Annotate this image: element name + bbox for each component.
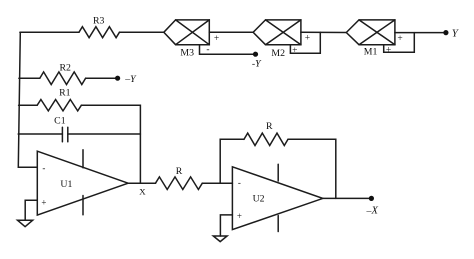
svg-text:–Y: –Y (124, 74, 137, 85)
svg-text:+: + (41, 198, 46, 208)
wire U1 noninverting input to ground (25, 200, 37, 220)
wire rail to R2 (19, 77, 40, 79)
svg-text:R: R (266, 121, 273, 132)
resistor R input (156, 177, 203, 190)
capacitor C1 (61, 127, 63, 142)
ground at U2 (213, 236, 227, 242)
svg-text:M2: M2 (271, 48, 285, 59)
wire R2 to -Y terminal (86, 77, 118, 79)
wire M3 output to M2 (209, 31, 253, 33)
wire U1 output node X (128, 182, 155, 184)
wire R to U2 inverting input (202, 182, 232, 184)
svg-text:+: + (386, 46, 391, 56)
wire top to R3 (20, 31, 79, 33)
svg-text:+: + (237, 211, 242, 221)
svg-text:-: - (206, 45, 209, 55)
wire rail to C1 (18, 133, 62, 135)
wire feedback right riser (288, 139, 336, 198)
wire rail to R1 (19, 104, 38, 106)
op-amp U2 (232, 167, 322, 230)
svg-text:U1: U1 (60, 179, 72, 190)
svg-text:Y: Y (452, 28, 460, 40)
U1 positive supply pin (82, 150, 84, 168)
svg-text:R2: R2 (59, 62, 71, 73)
svg-text:-: - (238, 178, 241, 188)
wire M2 plus terminal loop (290, 32, 320, 53)
op-amp U1 (37, 151, 128, 215)
wire M1 plus terminal loop (384, 33, 415, 53)
resistor R1 (37, 100, 81, 111)
wire M3 minus terminal to -Y node (200, 45, 256, 55)
svg-text:R3: R3 (93, 15, 105, 26)
resistor R3 (79, 27, 120, 38)
multiplier M1 (346, 20, 395, 45)
wire R3 to M3 (120, 31, 164, 33)
wire U2 noninverting input to ground (220, 215, 232, 236)
svg-text:–X: –X (366, 206, 379, 217)
ground at U1 (18, 220, 33, 227)
svg-text:-Y: -Y (252, 58, 262, 69)
node -Y terminal dot at R2 (115, 76, 120, 81)
svg-text:R1: R1 (59, 88, 71, 99)
wire R1 to feedback riser (81, 105, 140, 183)
wire M1 output to Y terminal (395, 32, 446, 34)
wire feedback left riser (220, 139, 244, 183)
multiplier M3 (164, 20, 210, 45)
wire left input rail (18, 32, 37, 167)
svg-text:+: + (397, 34, 402, 44)
U2 positive supply pin (277, 164, 279, 181)
multiplier M2 (253, 20, 301, 45)
wire U2 output to -X terminal (323, 197, 372, 199)
node -X terminal dot (369, 196, 374, 201)
resistor R2 (40, 72, 86, 85)
svg-text:M1: M1 (364, 47, 378, 58)
svg-text:M3: M3 (180, 47, 194, 58)
U2 negative supply pin (277, 216, 279, 232)
svg-text:-: - (42, 163, 45, 173)
node -Y terminal dot at M3 (253, 52, 258, 57)
svg-text:+: + (214, 34, 219, 44)
U1 negative supply pin (82, 196, 84, 215)
svg-text:R: R (176, 166, 183, 177)
node Y terminal dot (443, 30, 448, 35)
svg-text:+: + (305, 33, 310, 43)
svg-text:+: + (292, 46, 297, 56)
svg-text:U2: U2 (253, 194, 265, 205)
svg-text:C1: C1 (54, 116, 66, 127)
svg-text:X: X (139, 186, 146, 196)
wire C1 to feedback riser (68, 133, 141, 135)
resistor R feedback (244, 133, 288, 145)
wire M2 output to M1 (301, 31, 346, 33)
